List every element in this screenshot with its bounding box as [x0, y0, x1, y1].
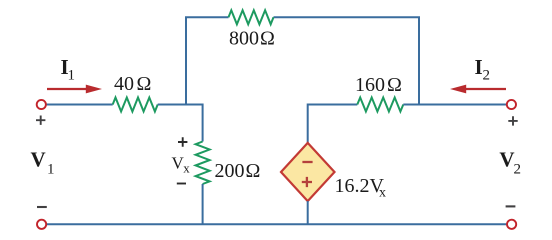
label minus left [37, 206, 47, 208]
svg-text:x: x [183, 161, 190, 176]
svg-text:x: x [379, 186, 386, 201]
svg-text:1: 1 [47, 162, 55, 178]
terminal right bottom [507, 220, 516, 229]
label Vx minus [177, 183, 186, 185]
svg-text:2: 2 [514, 162, 522, 178]
svg-text:V: V [499, 148, 514, 172]
diamond plus [302, 177, 312, 187]
resistor R 800 ohm [229, 10, 274, 24]
svg-text:Ω: Ω [137, 73, 152, 95]
svg-text:160: 160 [355, 74, 385, 96]
wire middle-left from 40ohm to 200ohm corner [158, 105, 203, 142]
wire diamond to bottom [307, 201, 309, 224]
svg-text:40: 40 [114, 73, 134, 95]
resistor R 200 ohm (vertical) [196, 142, 210, 185]
current arrow I1 [47, 88, 87, 90]
svg-text:I: I [475, 55, 483, 79]
label Vx plus [178, 137, 187, 146]
wire top horizontal right of 800ohm [274, 17, 420, 104]
svg-text:2: 2 [483, 68, 491, 84]
label minus right [506, 205, 516, 207]
current arrow I2 [466, 88, 506, 90]
svg-text:Ω: Ω [260, 28, 275, 50]
dependent source U1 diamond [281, 143, 335, 201]
terminal left top [37, 100, 46, 109]
label plus left [36, 116, 45, 125]
wire middle-right from 160ohm to right terminal [403, 104, 507, 106]
resistor R 40 ohm [113, 98, 158, 112]
terminal right top [507, 100, 516, 109]
terminal left bottom [37, 220, 46, 229]
wire bottom [46, 223, 507, 225]
svg-text:1: 1 [68, 68, 76, 84]
svg-text:200: 200 [215, 160, 245, 182]
wire top horizontal left of 800ohm [186, 17, 229, 104]
resistor R 160 ohm [357, 98, 403, 112]
label plus right [508, 116, 517, 125]
wire middle-right: diamond corner to 160ohm [308, 105, 358, 143]
wire middle-left from terminal to 40ohm [46, 104, 113, 106]
svg-text:800: 800 [229, 28, 259, 50]
wire 200ohm to bottom [202, 184, 204, 224]
svg-text:Ω: Ω [246, 160, 261, 182]
diamond minus [302, 161, 312, 163]
svg-text:16.2V: 16.2V [335, 175, 385, 197]
svg-text:Ω: Ω [387, 74, 402, 96]
svg-text:V: V [31, 148, 46, 172]
